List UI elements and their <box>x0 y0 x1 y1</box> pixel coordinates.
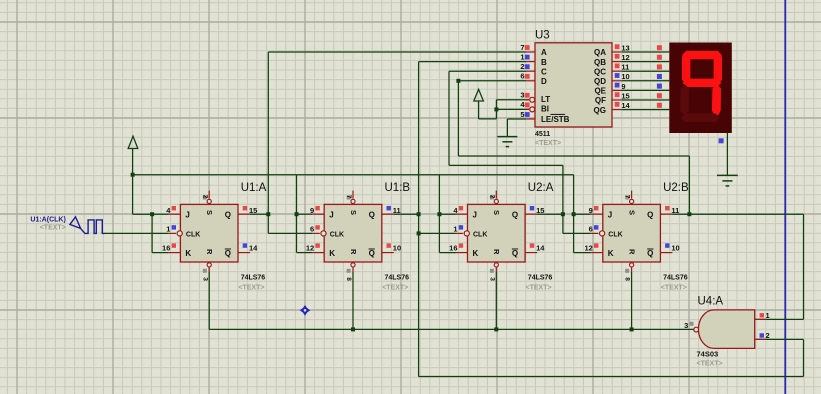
svg-text:K: K <box>608 249 614 258</box>
svg-text:S: S <box>349 210 358 215</box>
svg-text:9: 9 <box>621 82 625 91</box>
svg-text:12: 12 <box>621 53 629 62</box>
svg-text:A: A <box>541 48 547 57</box>
svg-text:B: B <box>541 58 547 67</box>
svg-text:LT: LT <box>541 95 550 104</box>
svg-text:<TEXT>: <TEXT> <box>661 285 687 292</box>
svg-text:Q: Q <box>512 210 518 219</box>
svg-text:QE: QE <box>594 87 606 96</box>
svg-text:7: 7 <box>624 195 631 199</box>
svg-text:R: R <box>349 249 358 255</box>
svg-text:74S03: 74S03 <box>697 350 719 359</box>
svg-text:U1:A(CLK): U1:A(CLK) <box>30 216 65 223</box>
svg-text:CLK: CLK <box>473 231 487 238</box>
svg-text:U2:B: U2:B <box>663 182 689 194</box>
svg-text:U3: U3 <box>535 30 550 42</box>
svg-text:U2:A: U2:A <box>528 182 554 194</box>
svg-text:2: 2 <box>488 195 495 199</box>
svg-text:R: R <box>205 249 214 255</box>
svg-text:7: 7 <box>345 195 352 199</box>
svg-text:J: J <box>473 210 477 219</box>
svg-text:Q: Q <box>512 249 518 258</box>
svg-text:C: C <box>541 67 547 76</box>
svg-text:9: 9 <box>310 206 314 215</box>
svg-text:13: 13 <box>621 43 629 52</box>
svg-text:R: R <box>492 249 501 255</box>
svg-text:10: 10 <box>671 244 679 253</box>
svg-text:16: 16 <box>449 244 457 253</box>
svg-text:12: 12 <box>306 244 314 253</box>
svg-text:CLK: CLK <box>608 231 622 238</box>
svg-text:74LS76: 74LS76 <box>528 275 553 282</box>
svg-text:Q: Q <box>647 249 653 258</box>
svg-text:<TEXT>: <TEXT> <box>526 285 552 292</box>
svg-text:10: 10 <box>393 244 401 253</box>
svg-text:1: 1 <box>766 311 770 320</box>
svg-text:74LS76: 74LS76 <box>385 275 410 282</box>
svg-text:14: 14 <box>621 101 630 110</box>
svg-text:14: 14 <box>536 244 545 253</box>
svg-text:J: J <box>608 210 612 219</box>
svg-text:Q: Q <box>225 249 231 258</box>
svg-text:11: 11 <box>393 206 401 215</box>
svg-text:S: S <box>492 210 501 215</box>
svg-text:CLK: CLK <box>330 231 344 238</box>
svg-text:12: 12 <box>584 244 592 253</box>
svg-text:3: 3 <box>201 277 208 281</box>
svg-text:3: 3 <box>488 277 495 281</box>
svg-text:8: 8 <box>624 277 631 281</box>
svg-text:3: 3 <box>684 321 688 330</box>
svg-text:6: 6 <box>310 224 314 233</box>
svg-text:74LS76: 74LS76 <box>241 275 266 282</box>
svg-text:6: 6 <box>589 224 593 233</box>
svg-text:74LS76: 74LS76 <box>663 275 688 282</box>
svg-text:15: 15 <box>536 206 544 215</box>
svg-text:K: K <box>185 249 191 258</box>
svg-text:U1:B: U1:B <box>385 182 411 194</box>
svg-text:U4:A: U4:A <box>698 296 724 308</box>
svg-text:K: K <box>329 249 335 258</box>
svg-text:S: S <box>627 210 636 215</box>
svg-text:<TEXT>: <TEXT> <box>238 285 264 292</box>
svg-text:1: 1 <box>520 52 524 61</box>
svg-text:CLK: CLK <box>186 231 200 238</box>
svg-text:4511: 4511 <box>535 131 550 138</box>
svg-text:LE/STB: LE/STB <box>541 115 570 124</box>
svg-text:1: 1 <box>166 224 170 233</box>
svg-text:<TEXT>: <TEXT> <box>535 140 561 147</box>
svg-text:QA: QA <box>594 48 606 57</box>
svg-text:11: 11 <box>671 206 679 215</box>
svg-text:14: 14 <box>249 244 258 253</box>
svg-text:11: 11 <box>621 63 629 72</box>
svg-text:7: 7 <box>520 43 524 52</box>
svg-text:Q: Q <box>647 210 653 219</box>
svg-text:QB: QB <box>594 58 606 67</box>
svg-text:Q: Q <box>225 210 231 219</box>
svg-text:6: 6 <box>520 72 524 81</box>
svg-text:1: 1 <box>453 224 457 233</box>
svg-text:<TEXT>: <TEXT> <box>382 285 408 292</box>
svg-text:5: 5 <box>520 110 524 119</box>
svg-text:R: R <box>627 249 636 255</box>
svg-text:QC: QC <box>594 67 606 76</box>
svg-text:QG: QG <box>594 106 606 115</box>
svg-text:3: 3 <box>520 91 524 100</box>
svg-text:S: S <box>205 210 214 215</box>
svg-text:8: 8 <box>345 277 352 281</box>
svg-text:Q: Q <box>369 210 375 219</box>
svg-text:<TEXT>: <TEXT> <box>697 361 723 368</box>
svg-text:J: J <box>185 210 189 219</box>
svg-text:Q: Q <box>369 249 375 258</box>
svg-text:K: K <box>473 249 479 258</box>
svg-text:QD: QD <box>594 77 606 86</box>
svg-text:16: 16 <box>162 244 170 253</box>
svg-text:2: 2 <box>766 331 770 340</box>
svg-text:QF: QF <box>595 96 606 105</box>
svg-text:<TEXT>: <TEXT> <box>40 224 66 231</box>
svg-text:2: 2 <box>201 195 208 199</box>
svg-text:9: 9 <box>589 206 593 215</box>
svg-text:D: D <box>541 77 547 86</box>
svg-text:2: 2 <box>520 62 524 71</box>
svg-text:15: 15 <box>249 206 257 215</box>
svg-text:U1:A: U1:A <box>241 182 267 194</box>
svg-text:BI: BI <box>541 104 549 113</box>
svg-text:15: 15 <box>621 91 629 100</box>
svg-text:10: 10 <box>621 72 629 81</box>
svg-text:J: J <box>329 210 333 219</box>
